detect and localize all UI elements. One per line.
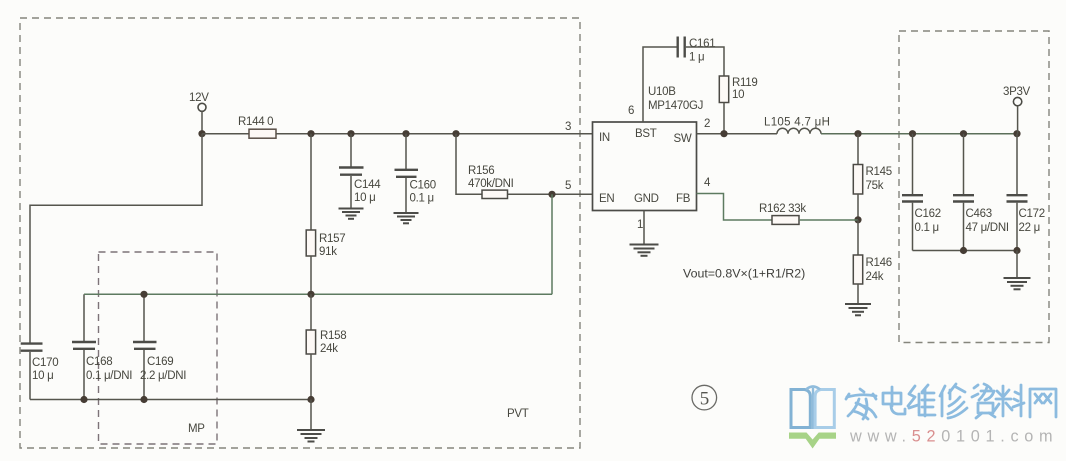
wire R162 to divider node (799, 219, 858, 221)
svg-text:12V: 12V (189, 92, 209, 104)
node junction ground row C463 (960, 247, 967, 254)
capacitor C463 (963, 134, 965, 195)
svg-text:24k: 24k (866, 271, 884, 283)
svg-text:U10B: U10B (648, 86, 676, 98)
capacitor C169 (143, 294, 145, 341)
svg-text:R156: R156 (468, 165, 494, 177)
wire FB pin 4 to R162 (697, 194, 773, 221)
wire L105 to output rail (821, 133, 1017, 135)
ground R146 (845, 304, 871, 315)
capacitor C168 (83, 294, 85, 341)
wire BST to C161 (643, 47, 677, 122)
svg-text:IN: IN (599, 132, 610, 144)
node junction 12V/rail (198, 130, 205, 137)
capacitor C170 (21, 342, 43, 344)
svg-text:3: 3 (565, 121, 571, 133)
wire rail down to R156 (456, 134, 482, 195)
svg-text:SW: SW (674, 133, 692, 145)
wire rail R144 to IC IN pin 3 (276, 133, 593, 135)
svg-text:C168: C168 (86, 356, 112, 368)
svg-text:10: 10 (732, 89, 744, 101)
svg-text:www.520101.com: www.520101.com (849, 428, 1058, 446)
svg-text:C160: C160 (410, 180, 436, 192)
svg-text:C162: C162 (915, 208, 941, 220)
svg-text:MP: MP (188, 423, 205, 435)
node junction bottom rail C169 (140, 396, 147, 403)
resistor R145 (857, 134, 859, 165)
ground C160 (394, 213, 419, 223)
watermark book icon (791, 387, 834, 430)
svg-text:C172: C172 (1019, 208, 1045, 220)
svg-text:C463: C463 (966, 208, 992, 220)
svg-text:75k: 75k (866, 180, 884, 192)
node junction rail/C172 (1013, 130, 1020, 137)
svg-text:R145: R145 (866, 166, 892, 178)
svg-text:10 μ: 10 μ (354, 192, 375, 204)
wire SW pin 2 to inductor (697, 133, 778, 135)
svg-text:6: 6 (628, 105, 634, 117)
page number circled 5 (692, 385, 717, 410)
ground output row (1016, 251, 1018, 278)
node junction rail/C463 (960, 130, 967, 137)
MP region dashed box (99, 252, 218, 444)
svg-text:470k/DNI: 470k/DNI (468, 178, 514, 190)
svg-text:R162 33k: R162 33k (759, 203, 806, 215)
ground C144 (339, 209, 364, 219)
svg-text:3P3V: 3P3V (1003, 86, 1031, 98)
svg-text:5: 5 (565, 180, 571, 192)
PVT region dashed box (20, 18, 580, 448)
wire EN net vertical (551, 194, 553, 294)
wire 12V branch to C170 (30, 134, 202, 343)
node junction bottom rail R158 (307, 396, 314, 403)
resistor R119 (719, 76, 728, 103)
svg-text:Vout=0.8V×(1+R1/R2): Vout=0.8V×(1+R1/R2) (683, 267, 805, 281)
wire rail to R144 (202, 133, 249, 135)
svg-text:22 μ: 22 μ (1019, 222, 1040, 234)
svg-text:MP1470GJ: MP1470GJ (648, 100, 703, 112)
watermark book base (789, 433, 836, 449)
svg-text:GND: GND (634, 193, 659, 205)
capacitor C161 (677, 37, 679, 58)
svg-text:C144: C144 (354, 179, 381, 191)
node junction ground row C172 (1013, 247, 1020, 254)
capacitor C162 (912, 134, 914, 195)
svg-text:0.1 μ/DNI: 0.1 μ/DNI (86, 370, 132, 382)
wire R156 to EN pin 5 (508, 193, 593, 195)
capacitor C160 (405, 134, 407, 170)
node junction green row C169 (140, 291, 147, 298)
node junction rail/R157 (307, 130, 314, 137)
svg-text:0.1 μ: 0.1 μ (915, 222, 939, 234)
resistor R157 (310, 134, 312, 230)
svg-text:R144 0: R144 0 (238, 116, 273, 128)
svg-text:1: 1 (637, 219, 643, 231)
node junction rail/C144 (347, 130, 354, 137)
svg-text:2: 2 (704, 118, 710, 130)
node junction rail/R156 (452, 130, 459, 137)
svg-text:0.1 μ: 0.1 μ (410, 193, 434, 205)
output region dashed box (899, 31, 1049, 343)
resistor R146 (857, 220, 859, 255)
svg-text:BST: BST (635, 128, 657, 140)
wire bottom ground rail (30, 399, 311, 401)
wire output cap ground row (913, 250, 1018, 252)
svg-text:5: 5 (700, 389, 710, 410)
svg-text:L105 4.7 μH: L105 4.7 μH (764, 117, 830, 129)
node junction bottom rail C168 (80, 396, 87, 403)
svg-text:R157: R157 (319, 233, 345, 245)
svg-text:C161: C161 (689, 38, 715, 50)
ground IC GND pin 1 (643, 211, 645, 245)
svg-text:EN: EN (599, 193, 614, 205)
node junction SW/R119 (720, 130, 727, 137)
svg-text:10 μ: 10 μ (32, 370, 53, 382)
svg-text:24k: 24k (320, 343, 338, 355)
resistor R158 (310, 294, 312, 330)
wire C161 to R119 (686, 47, 724, 76)
svg-text:91k: 91k (319, 246, 337, 258)
node junction green row R157/R158 (307, 291, 314, 298)
svg-text:R119: R119 (732, 77, 757, 89)
ground bottom rail (310, 400, 312, 430)
node junction FB divider (854, 216, 861, 223)
svg-text:R158: R158 (320, 330, 346, 342)
node junction rail/C162 (909, 130, 916, 137)
svg-text:C170: C170 (32, 357, 58, 369)
svg-text:PVT: PVT (507, 408, 529, 420)
svg-text:C169: C169 (147, 356, 173, 368)
svg-text:1 μ: 1 μ (689, 52, 704, 64)
node junction rail/C160 (402, 130, 409, 137)
capacitor C172 (1016, 134, 1018, 195)
node junction rail/R145 (854, 130, 861, 137)
wire 12V terminal to rail (201, 111, 203, 133)
svg-text:FB: FB (676, 193, 691, 205)
node junction EN/R156 (548, 191, 555, 198)
svg-text:47 μ/DNI: 47 μ/DNI (966, 222, 1009, 234)
svg-text:4: 4 (704, 177, 711, 189)
svg-text:2.2 μ/DNI: 2.2 μ/DNI (140, 370, 186, 382)
wire EN net green row (84, 293, 552, 295)
wire 3P3V to rail (1017, 106, 1019, 134)
svg-text:R146: R146 (866, 257, 892, 269)
watermark site name 家电维修资料网 (drawn strokes) (846, 384, 1056, 419)
capacitor C144 (350, 134, 352, 167)
